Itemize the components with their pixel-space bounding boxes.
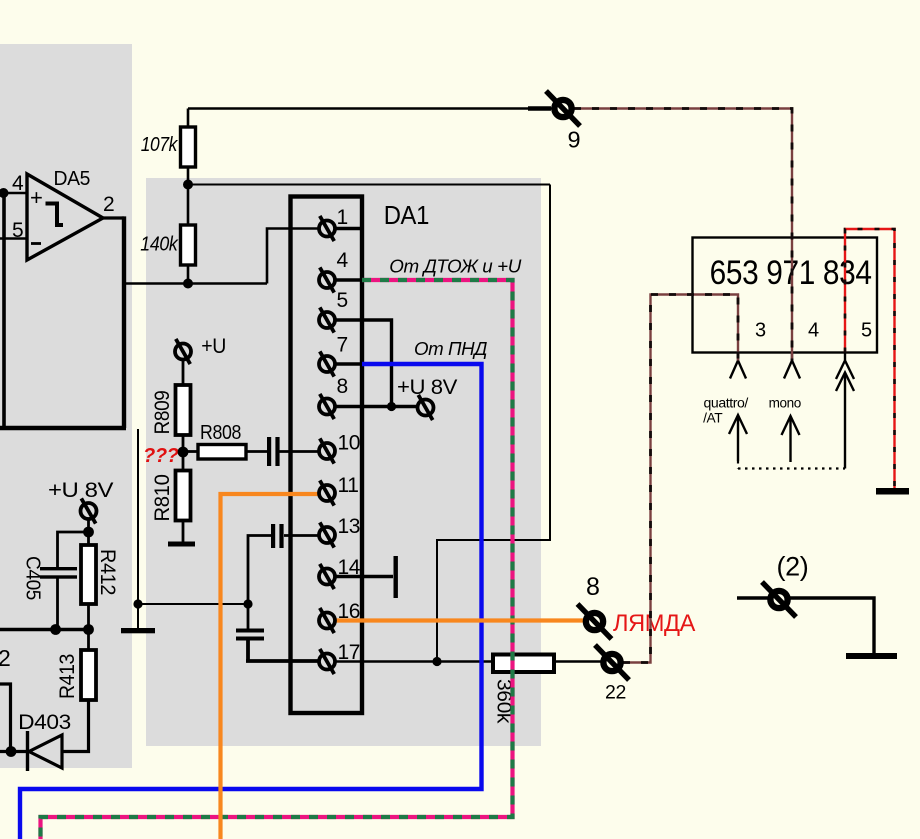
wire diode cathode to left (0, 750, 28, 753)
svg-text:5: 5 (12, 219, 23, 242)
screw pin 7 (319, 351, 335, 376)
resistor R413 (81, 650, 96, 700)
node C405 bottom (50, 624, 61, 635)
wire R412 bottom lead (87, 604, 90, 650)
terminal (2) (762, 582, 796, 617)
wire cap to pin 10 (280, 450, 320, 453)
gray panel DA1 (146, 178, 541, 746)
svg-text:D403: D403 (18, 711, 71, 734)
svg-text:7: 7 (337, 334, 348, 357)
wire DA5 output (103, 216, 124, 219)
wire pin 14 (335, 575, 393, 578)
wire orange pin 11 (221, 494, 321, 839)
resistor R809 (176, 385, 191, 435)
terminal 9 (546, 91, 580, 126)
svg-text:2: 2 (103, 193, 114, 216)
svg-text:R412: R412 (96, 549, 119, 595)
wire +U 8V screw lead (87, 519, 90, 545)
wire R413 bottom to diode (62, 700, 89, 752)
arrow quattro (729, 415, 747, 461)
svg-text:22: 22 (605, 682, 626, 704)
svg-text:C405: C405 (22, 556, 44, 600)
ground right red wire (876, 488, 909, 495)
wire 107k top lead (187, 109, 190, 128)
svg-text:5: 5 (861, 320, 872, 342)
wire R808 to cap (246, 450, 268, 453)
svg-text:14: 14 (338, 556, 361, 579)
wire pin 7 stub (335, 362, 362, 365)
screw pin 5 (319, 307, 335, 332)
screw +U 8V left (81, 498, 97, 523)
wire +U terminal to R809 (182, 360, 185, 385)
svg-text:3: 3 (755, 320, 766, 342)
wire bottom rail left block (0, 628, 89, 632)
wire thin loop right side down to pin17 node (437, 185, 550, 662)
gray panel left (0, 44, 132, 768)
capacitor at pin 13 (271, 524, 275, 548)
svg-text:???: ??? (143, 445, 179, 467)
svg-text:2: 2 (0, 645, 10, 671)
svg-text:140k: 140k (140, 233, 178, 255)
node R412 R413 (83, 624, 94, 635)
screw pin 17 (319, 649, 335, 674)
wire pin 5 to pin 8 (335, 320, 392, 407)
diode D403 (29, 735, 62, 768)
node R809 R810 R808 (178, 447, 189, 458)
wire pin13 cap right lead (284, 534, 319, 537)
wire feedback left edge (2, 193, 6, 428)
op-amp DA5 minus sign (31, 242, 41, 245)
wire R809 to R810 node (182, 435, 185, 471)
svg-text:4: 4 (337, 249, 349, 272)
resistor R412 (81, 545, 96, 604)
resistor R810 (176, 471, 191, 521)
T-bar pin 14 (394, 556, 398, 598)
wire cap2 to pin 17 (246, 641, 319, 662)
wire node B horizontal (124, 282, 267, 285)
terminal 8 (578, 604, 612, 639)
resistor 107k (181, 127, 196, 167)
svg-text:4: 4 (808, 320, 819, 342)
screw pin 14 (319, 564, 335, 589)
svg-text:+U 8V: +U 8V (48, 479, 113, 502)
svg-text:5: 5 (337, 289, 348, 312)
svg-text:/AT: /AT (703, 410, 722, 425)
svg-text:quattro/: quattro/ (704, 396, 749, 411)
wire 140k bottom lead (187, 265, 190, 284)
terminal 22 (595, 645, 629, 680)
node pin13 branch (243, 599, 252, 608)
screw pin 10 (319, 438, 335, 463)
wire terminal 2 left stub (737, 596, 771, 599)
wire dark red dashed terminal 9 to connector pin 4 (574, 109, 792, 361)
wire terminal 2 to ground (788, 598, 874, 653)
wire node B to pin 1 (267, 229, 319, 284)
svg-text:17: 17 (338, 641, 361, 664)
dotted link line (738, 461, 845, 469)
wire pink-green Ot DTOZH pin 4 (41, 280, 513, 839)
screw pin 8 (319, 394, 335, 419)
node pin5 pin8 (387, 402, 396, 411)
resistor R808 (198, 445, 246, 460)
capacitor C405 (40, 567, 77, 570)
svg-text:R808: R808 (200, 422, 241, 444)
fork pin 3 (730, 352, 746, 379)
wire DA5 pin4 input (0, 192, 27, 195)
wire pin 8 to +U 8V screw (335, 405, 417, 408)
wire pin5 fork down (844, 373, 846, 469)
ground mid left (121, 628, 155, 633)
capacitor at pin 17 (236, 629, 264, 633)
svg-text:DA5: DA5 (54, 168, 91, 190)
screw +U 8V right (418, 395, 434, 420)
screw pin 4 (319, 267, 335, 292)
svg-text:mono: mono (769, 396, 801, 411)
wire thin mid vertical (137, 429, 139, 628)
wire branch into diode node (0, 684, 11, 752)
svg-text:ЛЯМДА: ЛЯМДА (613, 610, 695, 637)
wire pin13 cap left lead (248, 536, 271, 629)
svg-text:10: 10 (338, 432, 361, 455)
wire DA5 output down and left (0, 216, 126, 428)
wire orange pin 16 lambda (336, 618, 585, 622)
svg-text:От ДТОЖ и +U: От ДТОЖ и +U (389, 256, 522, 277)
node DA5 pin4 (0, 188, 9, 198)
connector 653 971 834 box (693, 238, 878, 353)
screw pin 1 (319, 216, 335, 241)
wire red dashed connector pin 5 to ground (845, 229, 895, 488)
node +U8V C405 (83, 527, 94, 538)
wire node A to right (thin) (188, 184, 550, 186)
svg-text:11: 11 (338, 474, 359, 497)
op-amp DA5 (27, 174, 103, 260)
svg-text:+U: +U (201, 335, 226, 358)
node A below 107k (183, 180, 193, 190)
svg-text:От ПНД: От ПНД (414, 338, 487, 359)
svg-text:9: 9 (568, 127, 581, 153)
wire R810 to ground (182, 521, 185, 544)
node B below 140k (183, 279, 193, 289)
arrow mono (782, 416, 800, 462)
wire pin 1 stub (335, 227, 360, 230)
svg-text:4: 4 (12, 172, 24, 195)
svg-text:8: 8 (337, 375, 348, 398)
fork pin 4 (784, 352, 800, 379)
node diode cathode (6, 746, 17, 757)
svg-text:13: 13 (338, 515, 361, 538)
svg-text:R809: R809 (151, 391, 174, 435)
capacitor at R808 (267, 437, 271, 466)
svg-text:DA1: DA1 (384, 200, 429, 230)
wire node to R808 (183, 450, 198, 453)
wire pin 4 stub (335, 278, 362, 281)
svg-text:R810: R810 (151, 475, 174, 522)
node mid vertical (133, 599, 142, 608)
svg-text:R413: R413 (56, 654, 79, 699)
resistor 140k (181, 225, 196, 265)
fork pin 5 double chevron (836, 352, 854, 391)
wire thin mid horizontal (138, 603, 248, 605)
node pin17 loop (432, 657, 441, 666)
svg-text:107k: 107k (141, 134, 179, 156)
resistor 360k (493, 655, 554, 673)
op-amp DA5 symbol glyph (46, 204, 64, 226)
svg-text:1: 1 (337, 206, 348, 229)
svg-text:8: 8 (586, 573, 600, 601)
wire top from 107k to switch 9 (188, 107, 552, 110)
svg-text:(2): (2) (777, 552, 809, 582)
svg-text:+: + (30, 185, 42, 210)
wire stub at terminal 9 (528, 106, 551, 110)
ground under R810 (168, 542, 195, 547)
wire DA5 pin5 input (0, 237, 27, 240)
wire 107k bottom to 140k top (187, 167, 190, 225)
wire blue Ot PND pin 7 (20, 364, 482, 839)
screw pin 11 (319, 480, 335, 505)
screw pin 16 (319, 608, 335, 633)
wire dark red dashed terminal 22 to connector pin 3 (623, 295, 738, 663)
wire C405 top lead (58, 532, 89, 567)
screw pin 13 (319, 522, 335, 547)
ground terminal 2 (846, 653, 897, 659)
wire C405 bottom lead (56, 579, 59, 630)
wire pin 17 right (335, 660, 601, 662)
svg-text:+U 8V: +U 8V (397, 376, 457, 399)
connector DA1 box (291, 197, 363, 714)
screw +U R809 (175, 339, 191, 364)
